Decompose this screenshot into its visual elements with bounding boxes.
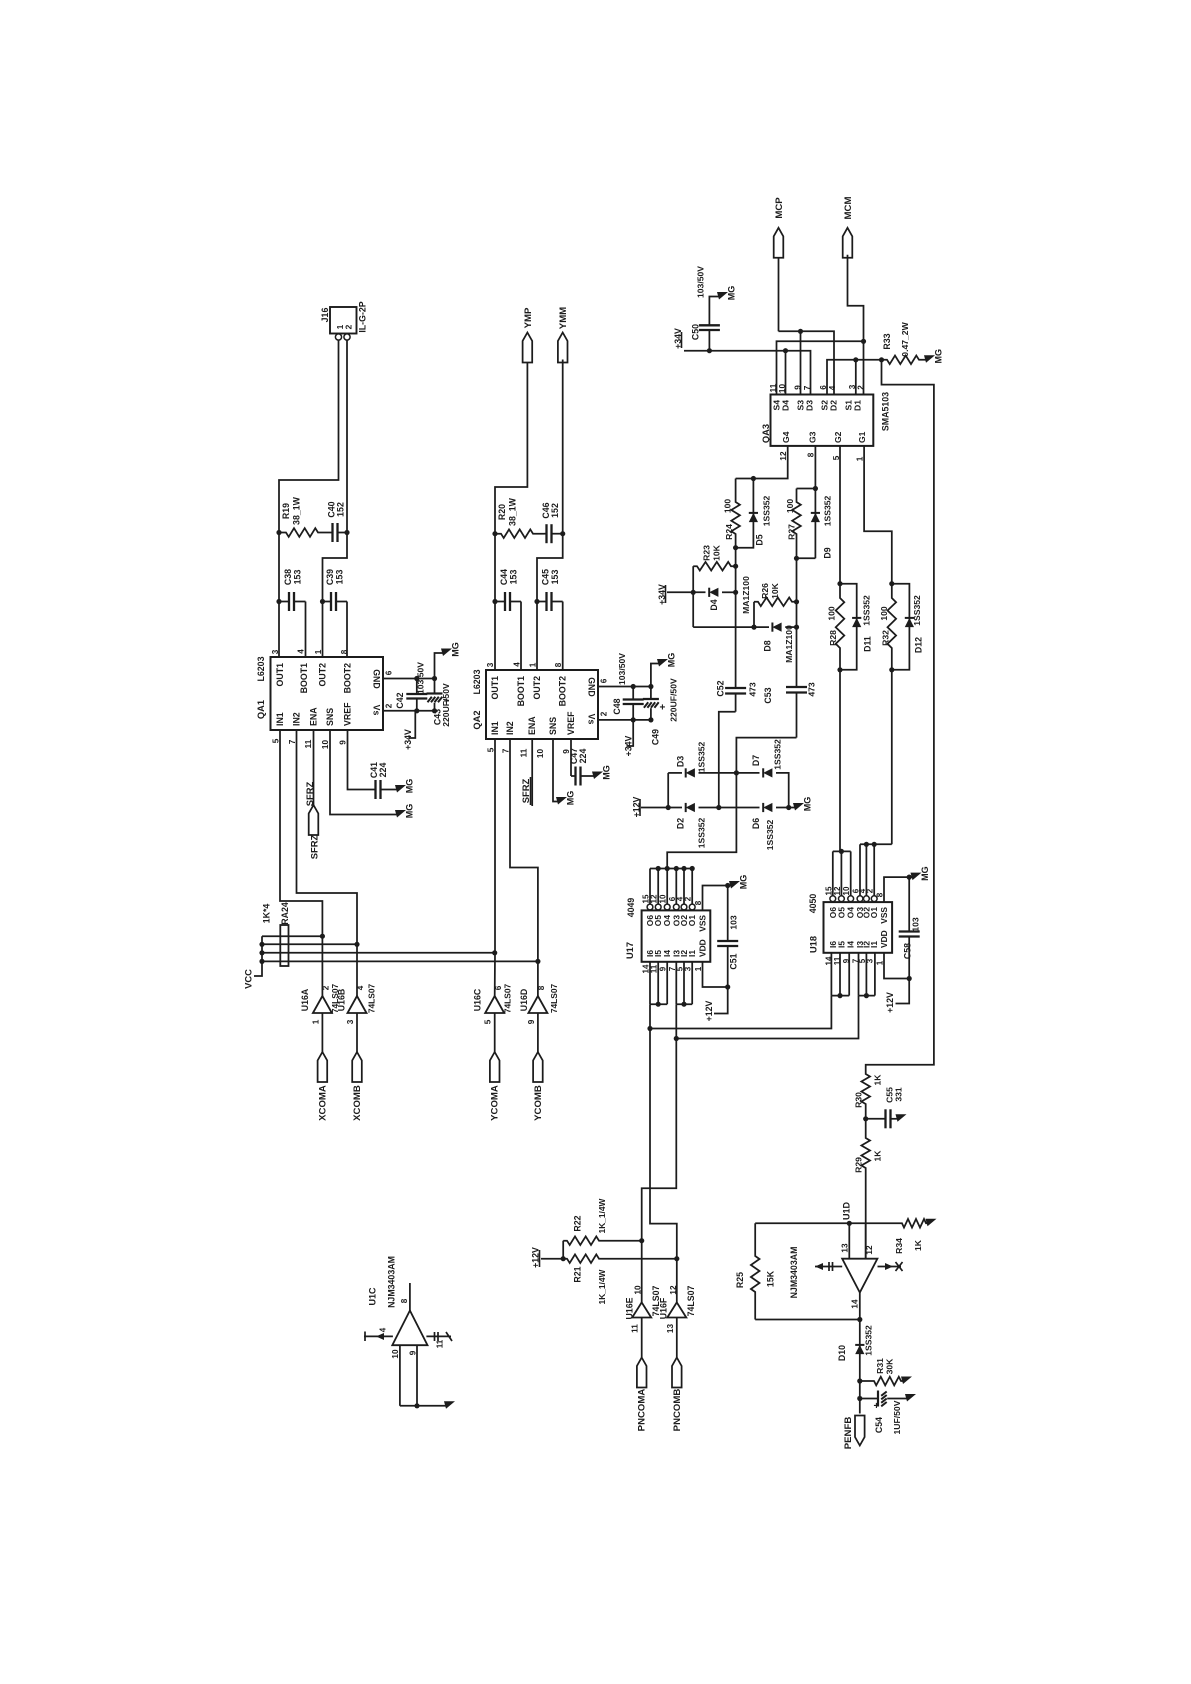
wire C53 jog to U17 riser (667, 738, 796, 869)
wire U16A input (321, 1013, 323, 1052)
svg-text:+12V: +12V (704, 1000, 714, 1021)
diode D9 (811, 513, 820, 522)
wire U16F output (676, 1259, 678, 1303)
junction C42 top (414, 676, 419, 681)
svg-text:G4: G4 (781, 431, 791, 443)
diode D12 (905, 618, 914, 627)
wire U18 VDD (884, 953, 909, 979)
svg-text:74LS07: 74LS07 (686, 1285, 696, 1316)
svg-text:L6203: L6203 (472, 669, 482, 694)
svg-text:R29: R29 (854, 1157, 864, 1173)
svg-text:OUT1: OUT1 (490, 676, 500, 700)
svg-text:GND: GND (372, 669, 382, 689)
svg-text:C58: C58 (903, 943, 913, 959)
wire G3 pin8 down (814, 446, 816, 558)
svg-text:3: 3 (486, 662, 495, 667)
capacitor C44 (495, 592, 521, 611)
junction line5 tap (647, 1026, 652, 1031)
svg-text:XCOMB: XCOMB (352, 1085, 363, 1121)
wire U1C pin10 input (399, 1345, 401, 1406)
wire R31 to C54 node (859, 1381, 861, 1399)
svg-text:R22: R22 (573, 1215, 583, 1231)
wire QA1 IN1 to U16A (280, 730, 322, 996)
junction C58/VDD (907, 976, 912, 981)
junction lower rail left (666, 805, 671, 810)
junction R26 right (794, 599, 799, 604)
U17 output bubble (681, 904, 687, 910)
wire RA24 line2 (262, 943, 357, 945)
svg-text:PENFB: PENFB (843, 1417, 854, 1450)
wire U1C output stub (409, 1283, 411, 1311)
buffer U16C triangle (485, 996, 504, 1013)
svg-text:2: 2 (385, 703, 394, 708)
wire C39 to BOOT2 (346, 602, 348, 658)
diode D10 (855, 1345, 864, 1354)
svg-text:+: + (660, 703, 666, 714)
svg-text:L6203: L6203 (256, 656, 266, 681)
wire U18 input (865, 953, 867, 996)
junction VSS/C51 (725, 883, 730, 888)
junction R32 bottom (889, 667, 894, 672)
wire U1D pin13 input (848, 1223, 850, 1258)
svg-text:2: 2 (344, 324, 354, 329)
svg-text:74LS07: 74LS07 (503, 983, 513, 1013)
junction C51/VDD (725, 984, 730, 989)
svg-text:QA3: QA3 (761, 424, 771, 443)
svg-text:152: 152 (336, 502, 346, 517)
wire U17 railB down (642, 1004, 677, 1240)
buffer U16B triangle (348, 996, 367, 1013)
junction C42 bottom (414, 708, 419, 713)
net flag MCM (843, 228, 853, 258)
wire U17 input railB (676, 1003, 692, 1005)
ground MG (QA2 GND) (657, 659, 668, 667)
svg-text:1K*4: 1K*4 (262, 904, 272, 924)
svg-text:U18: U18 (809, 936, 819, 953)
resistor R26 (754, 598, 797, 607)
svg-text:4: 4 (297, 649, 306, 654)
svg-text:MG: MG (934, 349, 944, 364)
wire +34V rail to D4 (667, 591, 706, 593)
wire U18 input (874, 953, 876, 996)
svg-text:BOOT1: BOOT1 (516, 676, 526, 706)
wire MCM flag stem (848, 255, 864, 395)
svg-text:D4: D4 (709, 599, 719, 610)
junction G3 rail (813, 486, 818, 491)
svg-text:C52: C52 (716, 680, 726, 696)
junction C49 bottom (648, 717, 653, 722)
svg-text:IN1: IN1 (275, 712, 285, 726)
wire D8 rail right (785, 626, 796, 628)
svg-text:Vs: Vs (372, 705, 382, 716)
net flag PENFB (855, 1416, 865, 1446)
junction VCC line4 (259, 959, 264, 964)
junction C44 left (492, 599, 497, 604)
capacitor C46 (544, 524, 563, 543)
junction line2 U16B (354, 942, 359, 947)
svg-text:11: 11 (520, 748, 529, 757)
svg-text:1K_1/4W: 1K_1/4W (597, 1198, 607, 1233)
wire QA1 VREF to C41 (348, 730, 372, 790)
junction R24/D5 bottom (733, 545, 738, 550)
ground MG (QA2 SNS) (556, 797, 567, 805)
svg-text:9: 9 (339, 740, 348, 745)
svg-text:D7: D7 (751, 755, 761, 766)
wire C58 to +12V (896, 979, 910, 1004)
junction C54 node (857, 1396, 862, 1401)
junction U17 output rail (690, 866, 695, 871)
junction +34V rail crossing (691, 590, 696, 595)
wire U17 input (666, 962, 668, 1004)
wire QA2 GND to MG (651, 664, 661, 687)
svg-text:U17: U17 (625, 942, 635, 959)
svg-text:1UF/50V: 1UF/50V (892, 1400, 902, 1434)
junction C43 top (432, 676, 437, 681)
svg-text:473: 473 (807, 682, 817, 697)
wire U16C input (494, 1013, 496, 1052)
svg-text:MG: MG (667, 653, 677, 668)
svg-text:U16E: U16E (625, 1297, 635, 1319)
wire C52 to lower rail (719, 712, 736, 808)
net flag YCOMA (490, 1052, 500, 1082)
wire U1D output to R25 (755, 1319, 860, 1321)
svg-text:G1: G1 (857, 431, 867, 443)
svg-text:C39: C39 (325, 569, 335, 585)
diode D6 (763, 803, 772, 812)
svg-text:8: 8 (554, 662, 563, 667)
wire U16B input (356, 1013, 358, 1052)
diode D2 (686, 803, 695, 812)
svg-text:13: 13 (666, 1324, 675, 1334)
wire U18 output (865, 844, 867, 896)
junction C46 right (560, 531, 565, 536)
junction U18 in railA (837, 993, 842, 998)
svg-text:30K: 30K (885, 1358, 895, 1375)
svg-text:MG: MG (405, 804, 415, 819)
wire S4 pin11 up (777, 341, 864, 394)
svg-text:BOOT2: BOOT2 (558, 676, 568, 706)
svg-text:U16F: U16F (659, 1297, 669, 1319)
junction R28 top (837, 581, 842, 586)
J16 pin 1 circle (335, 334, 341, 340)
wire U18 VSS (884, 877, 915, 902)
wire U1D feedback line (755, 1222, 900, 1224)
wire U17 railA down (650, 1004, 677, 1258)
junction line1 U16A (320, 934, 325, 939)
wire lower diode rail (641, 807, 682, 809)
resistor R19 (279, 528, 330, 537)
svg-text:D3: D3 (805, 400, 815, 411)
wire U1C pin9 input (416, 1345, 418, 1406)
wire U18 output railB (860, 843, 892, 845)
svg-text:9: 9 (527, 1019, 536, 1024)
svg-text:OUT2: OUT2 (318, 663, 328, 687)
wire U17 input (675, 962, 677, 1004)
svg-text:Vs: Vs (587, 714, 597, 725)
resistor R29 (861, 1119, 870, 1259)
wire RA24 line1 (262, 935, 322, 937)
svg-text:GND: GND (587, 677, 597, 697)
capacitor C45 (537, 592, 563, 611)
svg-text:VREF: VREF (566, 711, 576, 735)
svg-text:YCOMB: YCOMB (533, 1085, 544, 1121)
junction C39 left (320, 599, 325, 604)
junction line3 U16C (492, 950, 497, 955)
junction U17 output rail (674, 866, 679, 871)
svg-text:R24: R24 (724, 524, 734, 540)
svg-text:MCM: MCM (843, 197, 854, 220)
wire R23 left down (692, 566, 694, 627)
svg-text:2: 2 (600, 711, 609, 716)
svg-text:SNS: SNS (548, 717, 558, 735)
diode D8 (772, 623, 781, 632)
svg-text:IL-G-2P: IL-G-2P (358, 301, 368, 332)
diode D3 (686, 768, 695, 777)
wire C44 to BOOT1 (QA2) (520, 602, 522, 671)
junction U17 railA (656, 1002, 661, 1007)
capacitor C50 (699, 324, 720, 351)
resistor R24 (731, 479, 740, 548)
U1C power line left (364, 1335, 393, 1337)
svg-text:R19: R19 (281, 503, 291, 519)
svg-text:1SS352: 1SS352 (765, 819, 775, 850)
ground MG (QA1 SNS) (395, 810, 406, 818)
wire U17 input (657, 962, 659, 1004)
wire QA1 Vs rail (383, 710, 435, 712)
svg-text:4049: 4049 (626, 898, 636, 918)
svg-text:11: 11 (631, 1324, 640, 1333)
wire U17 output (657, 869, 659, 905)
svg-text:VCC: VCC (243, 969, 254, 989)
svg-text:4: 4 (379, 1327, 388, 1332)
wire U18 output (873, 844, 875, 896)
svg-text:331: 331 (894, 1087, 904, 1102)
svg-text:MG: MG (602, 765, 612, 780)
svg-text:38_1W: 38_1W (292, 496, 302, 525)
wire QA1 IN2 to U16B (297, 730, 358, 996)
svg-text:100: 100 (879, 606, 889, 621)
junction R30/C55 (863, 1116, 868, 1121)
IC U18 4050 body (824, 902, 893, 953)
junction U1D output (857, 1317, 862, 1322)
junction C49 top (648, 684, 653, 689)
net +34V underline (681, 332, 683, 348)
junction line4 U16D (535, 959, 540, 964)
net flag PNCOMB (672, 1358, 682, 1388)
junction U1C inputs (414, 1403, 419, 1408)
capacitor C39 (323, 592, 348, 611)
resistor R31 (860, 1377, 905, 1386)
wire YMM down (537, 360, 563, 671)
svg-text:C51: C51 (729, 953, 739, 969)
capacitor C53 (786, 627, 807, 738)
svg-text:YMM: YMM (558, 307, 569, 329)
U17 output bubble (673, 904, 679, 910)
wire VCC common (254, 936, 262, 976)
wire lower diode rail mid (699, 807, 760, 809)
junction U18 railA (839, 849, 844, 854)
svg-text:R34: R34 (894, 1238, 904, 1254)
IC U17 4049 body (642, 910, 711, 961)
net flag XCOMA (318, 1052, 328, 1082)
svg-text:YMP: YMP (523, 307, 534, 328)
svg-text:1K: 1K (873, 1074, 883, 1086)
svg-text:153: 153 (509, 570, 519, 585)
svg-text:100: 100 (827, 606, 837, 621)
ground MG (C41) (395, 785, 406, 793)
wire G2 pin5 down (839, 446, 841, 584)
svg-text:MG: MG (920, 866, 930, 881)
svg-text:ENA: ENA (527, 716, 537, 735)
svg-text:103/50V: 103/50V (416, 662, 426, 694)
svg-text:1K: 1K (873, 1150, 883, 1162)
svg-text:8: 8 (807, 452, 816, 457)
wire U18 output (832, 851, 834, 895)
svg-text:11: 11 (436, 1339, 445, 1348)
svg-text:0.47_2W: 0.47_2W (900, 321, 910, 356)
svg-text:YCOMA: YCOMA (490, 1085, 501, 1121)
svg-text:5: 5 (832, 455, 841, 460)
svg-text:13: 13 (841, 1243, 850, 1253)
diode D7 (763, 768, 772, 777)
wire U17 output (683, 869, 685, 905)
wire U18 input (858, 953, 860, 996)
IC QA2 L6203 body (486, 670, 598, 739)
svg-text:SFRZ: SFRZ (520, 778, 531, 803)
wire QA2 IN1 down (494, 739, 496, 996)
svg-text:220UF/50V: 220UF/50V (669, 678, 679, 722)
wire D9 bottom rail (797, 557, 816, 559)
svg-text:1SS352: 1SS352 (862, 595, 872, 626)
capacitor C43 electrolytic (427, 679, 450, 711)
wire U17 output (691, 869, 693, 905)
wire QA1 GND to MG (435, 653, 446, 679)
wire QA1 GND rail (383, 678, 435, 680)
svg-text:152: 152 (550, 503, 560, 518)
svg-text:12: 12 (779, 451, 788, 461)
svg-text:U16A: U16A (300, 988, 310, 1011)
svg-text:SFRZ: SFRZ (309, 834, 320, 859)
resistor R30 (861, 1072, 870, 1119)
buffer U16F triangle (667, 1302, 686, 1317)
wire QA2 IN2 down (510, 739, 538, 996)
svg-text:D1: D1 (853, 400, 863, 411)
net flag PNCOMA (637, 1358, 647, 1388)
svg-text:103: 103 (729, 915, 739, 930)
svg-text:D10: D10 (837, 1345, 847, 1361)
wire U17 input railA (650, 1003, 667, 1005)
svg-text:1K_1/4W: 1K_1/4W (597, 1269, 607, 1304)
svg-text:R28: R28 (828, 630, 838, 646)
wire QA2 OUT1 to YMP (495, 360, 527, 671)
svg-text:1SS352: 1SS352 (697, 817, 707, 848)
junction R22/U16E (639, 1238, 644, 1243)
wire C38 to BOOT1 (305, 602, 307, 658)
net flag SFRZ (QA1) (309, 805, 319, 835)
svg-text:153: 153 (550, 570, 560, 585)
wire U16E input (641, 1318, 643, 1358)
svg-text:IN2: IN2 (292, 712, 302, 726)
capacitor C40 (330, 523, 347, 542)
svg-text:103/50V: 103/50V (696, 266, 706, 298)
ground MG (R33) (924, 355, 935, 363)
svg-text:220UF/50V: 220UF/50V (441, 683, 451, 727)
svg-text:R27: R27 (787, 524, 797, 540)
junction R21/R22 left (561, 1256, 566, 1261)
U17 output bubble (647, 904, 653, 910)
wire U18 output (859, 844, 861, 896)
svg-text:U1D: U1D (842, 1202, 852, 1221)
svg-text:3: 3 (346, 1019, 355, 1024)
U18 output bubble (848, 896, 854, 902)
ground MG (C50) (717, 292, 728, 300)
net label SFRZ underline (530, 777, 532, 805)
svg-text:D12: D12 (914, 637, 924, 653)
svg-text:U1C: U1C (368, 1287, 378, 1306)
svg-text:+12V: +12V (885, 992, 895, 1013)
svg-text:224: 224 (378, 763, 388, 778)
svg-text:VREF: VREF (343, 702, 353, 726)
wire U17 output (649, 869, 651, 905)
wire G4 pin12 down (736, 446, 788, 479)
junction D8 rail right end (794, 625, 799, 630)
junction U17 output rail (681, 866, 686, 871)
svg-text:+34V: +34V (624, 735, 634, 756)
resistor R25 (751, 1223, 760, 1319)
wire S1 pin3 up (855, 360, 857, 395)
IC QA3 SMA5103 body (771, 395, 874, 446)
wire U1D pin12 input (865, 1223, 867, 1258)
capacitor C47 (571, 767, 596, 786)
U1D power line right (878, 1266, 902, 1268)
svg-text:D2: D2 (676, 818, 686, 829)
svg-text:38_1W: 38_1W (508, 497, 518, 526)
junction U18 railB1 (864, 842, 869, 847)
resistor R20 (495, 529, 544, 538)
J16 pin 2 circle (344, 334, 350, 340)
wire RA24 line3 (262, 952, 495, 954)
junction R33 left (879, 357, 884, 362)
svg-text:BOOT1: BOOT1 (299, 663, 309, 693)
svg-text:D8: D8 (763, 640, 773, 651)
junction U17 output rail (656, 866, 661, 871)
svg-text:C38: C38 (283, 569, 293, 585)
svg-text:QA2: QA2 (472, 710, 482, 729)
svg-text:MA1Z100: MA1Z100 (784, 625, 794, 663)
U1C power line right (426, 1335, 451, 1337)
svg-text:C50: C50 (691, 324, 701, 340)
wire QA1 ENA to SFRZ flag (313, 730, 315, 805)
junction C50 +34V (707, 348, 712, 353)
svg-text:I1: I1 (687, 950, 697, 957)
svg-text:C54: C54 (874, 1417, 884, 1433)
capacitor C52 (725, 592, 746, 711)
svg-text:+: + (874, 1401, 880, 1412)
svg-text:SMA5103: SMA5103 (881, 392, 891, 431)
resistor R23 (693, 562, 735, 571)
U18 output bubble (830, 896, 836, 902)
U17 output bubble (655, 904, 661, 910)
ground MG (C55) (896, 1114, 907, 1122)
wire S3 pin9 up (800, 331, 802, 394)
svg-text:D4: D4 (781, 400, 791, 411)
wire QA2 SNS to MG (553, 739, 560, 802)
wire U18 output railA (833, 850, 851, 852)
wire U17 input (683, 962, 685, 1004)
svg-text:1SS352: 1SS352 (762, 495, 772, 526)
svg-text:74LS07: 74LS07 (549, 983, 559, 1013)
svg-text:10: 10 (321, 740, 330, 750)
